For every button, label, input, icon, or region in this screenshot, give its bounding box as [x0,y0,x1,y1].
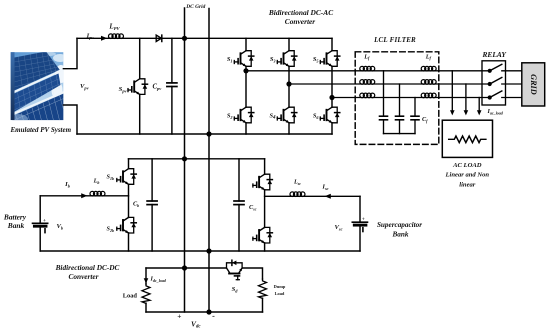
node bus+ top rail [182,36,187,41]
node bus- dcdc bottom [206,248,211,253]
inductor Lsc [290,192,305,197]
wire load left leg [145,268,147,284]
inductor Lb [90,191,105,196]
inductor Lf2a [421,66,436,71]
inverter leg 1 wire [245,38,247,134]
svg-text:AC LOAD: AC LOAD [452,162,482,169]
LCL filter dashed box [355,52,439,145]
inverter leg 2 wire [288,38,290,134]
transistor S1 [234,51,254,67]
battery converter leg wire [128,159,130,251]
battery bank leg wire [39,196,41,251]
DC bus positive [184,8,186,312]
node bus- bottom return [206,309,211,314]
transistor Sd [227,260,243,280]
node bus+ load [182,265,187,270]
wire AC load tap B [465,84,467,111]
inductor Lf2b [421,80,436,85]
wire AC load tap A [451,71,453,111]
inductor Lf1b [360,80,375,85]
svg-text:DC Grid: DC Grid [185,4,205,10]
wire supercap branch [265,195,360,197]
relay contact C [488,91,502,100]
supercapacitor leg wire [359,196,361,251]
transistor S4 [277,107,297,123]
svg-text:Bidirectional DC-DC: Bidirectional DC-DC [55,263,120,272]
capacitor Cf branch C [411,98,419,134]
arrow Isc [325,194,331,199]
node phase C [329,95,334,100]
wire PV output bottom [63,105,77,134]
resistor Load [142,284,150,303]
supercap converter leg wire [264,159,266,251]
wire dc load top [146,267,226,269]
capacitor Csc [234,159,244,251]
transistor Ssc1 [253,174,272,190]
grid box [522,63,545,106]
arrow Ib [81,193,87,198]
white separator 2 [12,92,64,114]
wire top DC rail [77,37,332,39]
diode D1 [156,35,162,41]
emulated PV system photo [6,52,68,124]
svg-text:Bank: Bank [7,221,25,230]
left dark strip of panel [11,52,15,120]
wire relay to grid B [502,83,522,85]
battery bank symbol [33,223,48,232]
transistor Ssc2 [253,227,272,243]
transistor S2 [234,107,254,123]
svg-text:Bank: Bank [392,231,409,239]
svg-text:RELAY: RELAY [481,50,507,59]
relay contact B [488,78,502,87]
wire bottom DC rail [77,133,332,135]
transistor S6 [320,107,340,123]
capacitor Cpv [167,38,177,134]
white separator 1 [14,71,61,92]
inverter leg 3 wire [331,38,333,134]
wire Cf common [384,133,416,135]
relay box [482,61,506,105]
node phase B [286,81,291,86]
node phase A [243,68,248,73]
node bus+ dcdc top [182,156,187,161]
wire AC load tap C [478,98,480,111]
wire phase A [246,70,490,72]
transistor Spv leg wire [139,38,141,134]
inductor Lf1a [360,66,375,71]
inductor Lf1c [360,93,375,98]
capacitor Cf branch A [380,71,388,134]
DC bus negative [208,9,210,313]
solar panel band 1 [14,52,60,91]
svg-text:Converter: Converter [69,272,99,281]
svg-text:LCL FILTER: LCL FILTER [373,36,416,44]
wire relay to grid A [502,70,522,72]
svg-text:-: - [212,312,215,321]
svg-text:Dump: Dump [274,284,286,289]
resistor AC load [449,136,486,143]
svg-text:Linear and Non: Linear and Non [444,172,489,179]
arrow Ipv [101,36,107,41]
capacitor Cf branch B [396,84,404,134]
wire load bottom leg [145,303,147,312]
wire PV output top [63,38,77,68]
resistor dump load [259,279,267,298]
svg-text:+: + [43,218,46,224]
svg-text:Supercapacitor: Supercapacitor [377,221,422,229]
svg-text:GRID: GRID [529,74,538,95]
svg-text:Bidirectional DC-AC: Bidirectional DC-AC [268,8,333,17]
wire Sd to dump load [243,268,263,279]
svg-text:+: + [177,311,181,320]
relay contact A [488,64,502,73]
wire phase B [289,83,490,85]
transistor S1b [117,169,137,185]
solar panel band 2 [13,74,61,113]
wire DC-DC bottom rail [40,250,360,252]
transistor S3 [277,51,297,67]
wire bottom return rail [146,311,263,313]
svg-text:Converter: Converter [285,17,316,26]
capacitor Cb [147,159,157,251]
wire dump load bottom [262,298,264,312]
transistor S5 [320,51,340,67]
svg-text:Load: Load [275,291,285,296]
transistor Spv [128,79,148,95]
inductor Lf2c [421,93,436,98]
transistor S2b [117,217,137,233]
wire relay to grid C [502,97,522,99]
svg-text:+: + [362,217,365,223]
node bus- bottom rail [206,131,211,136]
solar panel band 3 [12,94,63,121]
arrow Idcload [144,278,149,283]
supercapacitor bank symbol [352,222,367,231]
svg-text:linear: linear [459,181,476,188]
svg-text:Load: Load [123,293,138,300]
AC load box [442,120,492,157]
wire DC-DC top rail [129,158,265,160]
svg-text:Emulated PV System: Emulated PV System [10,126,72,134]
wire phase C [332,97,490,99]
wire battery top [40,195,128,197]
inductor LPV [109,34,124,39]
